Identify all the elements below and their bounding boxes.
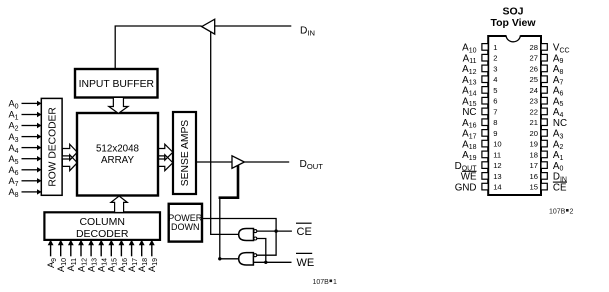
- pin 1: A10 (left): [462, 43, 497, 55]
- svg-text:13: 13: [493, 172, 501, 181]
- bus arrow: INPUT BUFFER to ARRAY: [109, 97, 128, 113]
- pin 21: NC (right): [530, 118, 568, 129]
- svg-text:27: 27: [530, 54, 538, 63]
- svg-text:11: 11: [493, 150, 501, 159]
- input A5 label and arrow: [8, 154, 41, 166]
- block: COLUMN DECODER U5: [44, 212, 160, 240]
- pin 25: A7 (right): [530, 75, 564, 87]
- block: POWER DOWN U6: [168, 204, 203, 242]
- svg-text:CE: CE: [553, 183, 567, 194]
- block: 512x2048 ARRAY U3: [77, 113, 158, 196]
- junction: CE node: [274, 229, 277, 232]
- pin 20: A3 (right): [530, 129, 564, 141]
- svg-text:14: 14: [493, 183, 501, 192]
- svg-text:25: 25: [530, 75, 538, 84]
- wire: SENSE AMPS to DOUT buffer: [196, 161, 232, 163]
- wire: CE branch to POWER DOWN: [203, 219, 277, 232]
- pin 12: DOUT (left): [455, 161, 502, 173]
- block: ROW DECODER U1: [41, 98, 62, 195]
- svg-text:512x2048: 512x2048: [96, 143, 140, 154]
- pin 28: VCC (right): [530, 43, 570, 55]
- pin 10: A18 (left): [462, 140, 501, 152]
- pin 5: A14 (left): [462, 86, 497, 98]
- bus arrow: ARRAY to SENSE AMPS (lower): [158, 155, 173, 171]
- pin 4: A13 (left): [462, 75, 497, 87]
- pin 18: A1 (right): [530, 150, 564, 162]
- package body outline: [488, 36, 541, 195]
- svg-text:107B: 107B: [313, 279, 330, 286]
- gate G2: read control AND gate (CE inverted, WE): [239, 253, 257, 265]
- svg-text:COLUMN: COLUMN: [79, 216, 125, 228]
- input A13 label and arrow: [87, 240, 99, 272]
- svg-text:ROW DECODER: ROW DECODER: [47, 107, 58, 187]
- svg-text:26: 26: [530, 64, 538, 73]
- svg-text:NC: NC: [553, 118, 567, 129]
- pin 26: A8 (right): [530, 64, 564, 76]
- wire: DIN input line: [215, 25, 292, 27]
- junction: WE node: [264, 261, 267, 264]
- input A12 label and arrow: [76, 240, 88, 272]
- svg-text:28: 28: [530, 43, 538, 52]
- svg-text:16: 16: [530, 172, 538, 181]
- pin 9: A17 (left): [462, 129, 497, 141]
- block: INPUT BUFFER U2: [75, 69, 158, 98]
- pin 19: A2 (right): [530, 140, 564, 152]
- bus arrow: COLUMN DECODER to ARRAY: [111, 196, 127, 213]
- svg-text:19: 19: [530, 140, 538, 149]
- svg-text:1: 1: [333, 279, 337, 286]
- buffer U7: DIN input buffer triangle: [202, 19, 215, 34]
- pin 16: DIN (right): [530, 172, 567, 184]
- bus arrow: ROW DECODER to ARRAY (upper): [62, 144, 77, 160]
- svg-text:4: 4: [493, 75, 497, 84]
- pin 22: A4 (right): [530, 107, 564, 119]
- pin 13: WE (left): [461, 171, 502, 182]
- input A2 label and arrow: [8, 121, 41, 133]
- input A17 label and arrow: [127, 240, 139, 272]
- svg-text:GND: GND: [455, 183, 477, 194]
- bus arrow: ARRAY to SENSE AMPS (upper): [158, 144, 173, 160]
- block: SENSE AMPS U4: [173, 112, 196, 194]
- pin 23: A5 (right): [530, 97, 564, 109]
- svg-text:24: 24: [530, 86, 538, 95]
- svg-text:5: 5: [493, 86, 497, 95]
- package pin-1 notch: [506, 34, 520, 37]
- svg-text:3: 3: [493, 64, 497, 73]
- wire: CE branch to gate G2: [257, 231, 276, 255]
- svg-text:6: 6: [493, 97, 497, 106]
- svg-text:9: 9: [493, 129, 497, 138]
- pin 7: NC (left): [462, 107, 497, 118]
- svg-text:2: 2: [570, 209, 574, 216]
- svg-text:SENSE AMPS: SENSE AMPS: [180, 120, 191, 187]
- pin 11: A19 (left): [462, 150, 501, 162]
- wire: WE line to gate G2: [253, 261, 291, 263]
- svg-text:15: 15: [530, 183, 538, 192]
- pin 15: CE (right): [530, 182, 567, 193]
- input A9 label and arrow: [46, 240, 58, 268]
- junction: gate G2 output node: [218, 257, 221, 260]
- input A18 label and arrow: [137, 240, 149, 272]
- svg-text:20: 20: [530, 129, 538, 138]
- title: SOJ Top View: [490, 6, 536, 30]
- pin 6: A15 (left): [462, 97, 497, 109]
- label: WE (active low): [296, 253, 314, 269]
- svg-text:INPUT BUFFER: INPUT BUFFER: [79, 79, 155, 90]
- pin 24: A6 (right): [530, 86, 564, 98]
- input A10 label and arrow: [56, 240, 68, 272]
- svg-text:23: 23: [530, 97, 538, 106]
- input A19 label and arrow: [147, 240, 159, 272]
- svg-text:7: 7: [493, 107, 497, 116]
- svg-text:21: 21: [530, 118, 538, 127]
- input A4 label and arrow: [8, 143, 41, 155]
- svg-text:DOWN: DOWN: [171, 222, 200, 232]
- svg-text:12: 12: [493, 161, 501, 170]
- svg-text:8: 8: [493, 118, 497, 127]
- wire: write enable from gate G1 up to DIN buffer: [211, 32, 239, 235]
- pin 2: A11 (left): [463, 53, 498, 65]
- label: CE (active low): [296, 223, 312, 238]
- input A11 label and arrow: [66, 240, 78, 272]
- svg-text:Top View: Top View: [490, 17, 536, 29]
- svg-text:ARRAY: ARRAY: [101, 155, 134, 166]
- svg-text:107B: 107B: [549, 209, 566, 216]
- input A15 label and arrow: [107, 240, 119, 272]
- wire: output enable from gate G2: [220, 199, 239, 259]
- wire: output enable thick segment to DOUT buffer: [219, 165, 240, 198]
- svg-text:CE: CE: [297, 226, 312, 238]
- input A0 label and arrow: [8, 99, 41, 111]
- svg-text:DECODER: DECODER: [76, 228, 129, 240]
- wire: DOUT output line: [244, 161, 289, 163]
- svg-text:WE: WE: [297, 257, 315, 269]
- svg-text:1: 1: [493, 43, 497, 52]
- input A14 label and arrow: [97, 240, 109, 272]
- svg-text:22: 22: [530, 107, 538, 116]
- gate G1: write control AND gate (inputs CE, WE inverted): [239, 229, 257, 241]
- svg-text:2: 2: [493, 54, 497, 63]
- input A3 label and arrow: [8, 132, 41, 144]
- svg-text:WE: WE: [461, 172, 477, 183]
- svg-text:17: 17: [530, 161, 538, 170]
- svg-text:10: 10: [493, 140, 501, 149]
- pin 3: A12 (left): [462, 64, 497, 76]
- bus arrow: ROW DECODER to ARRAY (lower): [62, 155, 77, 171]
- pin 17: A0 (right): [530, 161, 564, 173]
- input A8 label and arrow: [8, 187, 41, 199]
- svg-text:NC: NC: [462, 107, 476, 118]
- buffer U8: DOUT output buffer triangle: [232, 156, 244, 169]
- input A1 label and arrow: [8, 110, 41, 122]
- input A7 label and arrow: [8, 176, 41, 188]
- wire: DIN buffer output to INPUT BUFFER: [115, 26, 202, 69]
- svg-text:SOJ: SOJ: [502, 6, 523, 18]
- input A6 label and arrow: [8, 165, 41, 177]
- pin 14: GND (left): [455, 183, 502, 194]
- pin 8: A16 (left): [462, 118, 497, 130]
- wire: CE line to gate G1: [257, 230, 292, 232]
- input A16 label and arrow: [117, 240, 129, 272]
- wire: WE branch to gate G1: [257, 239, 266, 263]
- pin 27: A9 (right): [530, 53, 564, 65]
- svg-text:18: 18: [530, 150, 538, 159]
